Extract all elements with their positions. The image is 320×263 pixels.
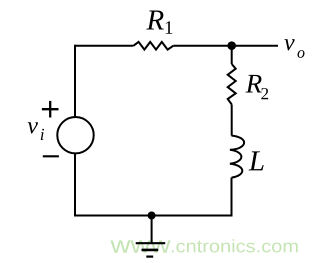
label L <box>249 151 264 170</box>
node B: ground junction <box>148 212 156 220</box>
node A: output junction <box>227 41 236 50</box>
label vo <box>284 39 294 50</box>
wire left vertical lower <box>74 154 76 217</box>
ground stub wire <box>151 216 153 244</box>
watermark www.cntronics.com <box>110 239 297 253</box>
wire R2 to L <box>231 104 233 135</box>
wire R1 to node <box>173 45 231 47</box>
wire bottom <box>74 215 233 217</box>
inductor L <box>230 136 244 178</box>
label vi <box>28 122 38 133</box>
resistor R2 <box>228 64 236 104</box>
plus terminal of source <box>42 101 59 118</box>
label R1 <box>146 11 163 30</box>
voltage source vi <box>57 117 93 153</box>
wire L to bottom <box>231 178 233 217</box>
resistor R1 <box>134 42 174 50</box>
wire node to R2 <box>231 46 233 64</box>
wire left vertical upper <box>74 45 76 117</box>
wire node to vo <box>232 45 278 47</box>
wire top-left horizontal <box>75 45 134 47</box>
ground <box>136 243 166 256</box>
label R2 <box>246 75 262 93</box>
minus terminal of source <box>43 155 59 157</box>
